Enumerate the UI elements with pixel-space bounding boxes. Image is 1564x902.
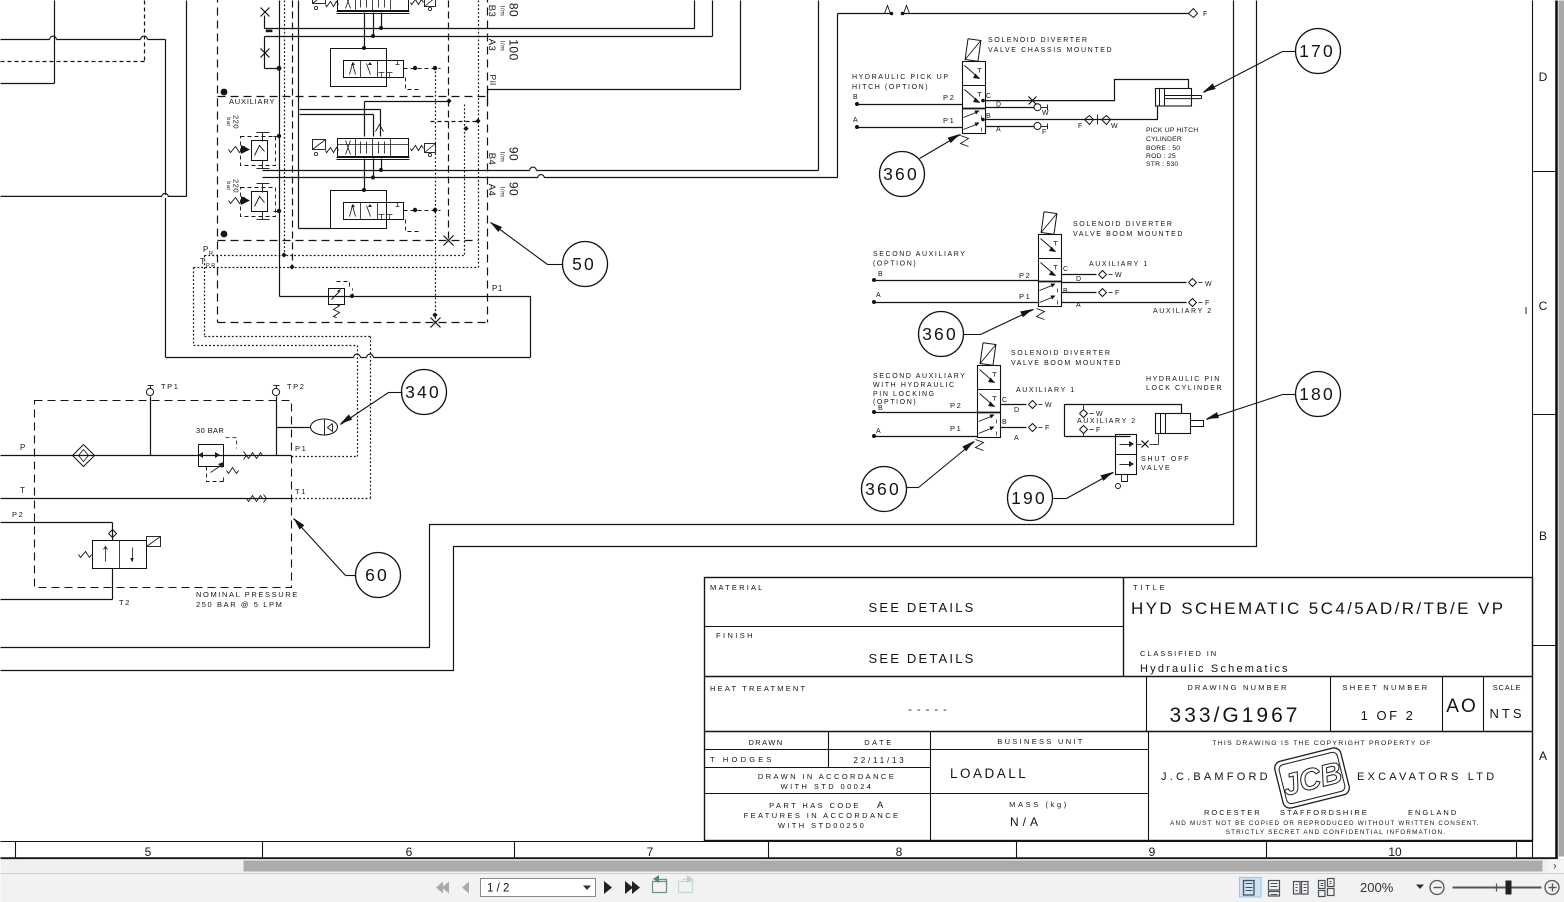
wire A with restrictor F xyxy=(986,123,1048,137)
svg-text:F: F xyxy=(1203,11,1209,18)
label ports group2 xyxy=(1063,266,1083,309)
svg-text:1 OF 2: 1 OF 2 xyxy=(1361,708,1416,723)
svg-text:SEE DETAILS: SEE DETAILS xyxy=(868,600,975,615)
label B3 80 l/m xyxy=(486,3,521,17)
toolbar zoom text 200% xyxy=(1360,880,1394,895)
balloon 50 xyxy=(563,242,608,287)
svg-text:TP1: TP1 xyxy=(161,382,180,391)
pilot dashed stub y121 xyxy=(431,118,481,131)
aux2 loop group3 xyxy=(1065,405,1182,437)
wire B4 xyxy=(263,1,819,172)
view icon continuous xyxy=(1269,881,1280,897)
svg-text:CYLINDER: CYLINDER xyxy=(1146,136,1182,143)
svg-text:DRAWN: DRAWN xyxy=(748,738,783,747)
text rocester line xyxy=(1204,808,1458,817)
svg-text:NTS: NTS xyxy=(1490,706,1525,721)
label ports group3 xyxy=(1002,397,1021,442)
toolbar zoom in button xyxy=(1545,881,1559,895)
label Pil xyxy=(488,75,498,86)
leader 170 xyxy=(1203,52,1296,93)
svg-text:190: 190 xyxy=(1011,488,1047,508)
svg-text:220: 220 xyxy=(232,179,241,193)
wire B group2 xyxy=(872,271,1039,282)
text SEE DETAILS (finish) xyxy=(868,651,975,666)
wire A group1 xyxy=(853,116,963,129)
svg-text:F: F xyxy=(1115,290,1121,297)
leader 360 group3 xyxy=(907,441,975,488)
accumulator xyxy=(277,419,338,436)
fold mark I xyxy=(1525,306,1528,317)
svg-text:AUXILIARY: AUXILIARY xyxy=(229,97,275,106)
pump unit dashed box xyxy=(35,401,292,588)
wire Pil xyxy=(488,1,741,105)
wire T line xyxy=(1,486,292,499)
toolbar prev-page button (disabled) xyxy=(462,882,469,894)
svg-text:FINISH: FINISH xyxy=(716,631,755,640)
svg-text:l/m: l/m xyxy=(498,152,505,163)
svg-text:I: I xyxy=(1525,306,1528,317)
svg-text:TP2: TP2 xyxy=(287,382,306,391)
wire A3 xyxy=(265,1,713,37)
compensator valve A3 xyxy=(331,49,441,90)
svg-text:SECOND AUXILIARY: SECOND AUXILIARY xyxy=(873,251,967,258)
svg-text:AUXILIARY 1: AUXILIARY 1 xyxy=(1089,261,1149,268)
text drawing title xyxy=(1131,599,1505,618)
svg-text:NOMINAL PRESSURE: NOMINAL PRESSURE xyxy=(196,590,299,599)
svg-text:PR: PR xyxy=(206,263,217,269)
horizontal scrollbar thumb xyxy=(244,861,1543,872)
label MATERIAL xyxy=(710,583,765,592)
svg-text:WITH HYDRAULIC: WITH HYDRAULIC xyxy=(873,382,956,389)
svg-text:B: B xyxy=(853,94,859,101)
svg-text:W: W xyxy=(1096,411,1104,418)
svg-text:›: › xyxy=(1553,861,1557,873)
leader 60 xyxy=(294,518,356,576)
svg-text:BUSINESS UNIT: BUSINESS UNIT xyxy=(997,737,1084,746)
svg-text:B: B xyxy=(878,405,884,412)
label P1 port xyxy=(295,444,307,453)
junction dot bottom xyxy=(221,231,228,238)
balloon 170 xyxy=(1296,29,1341,74)
svg-text:VALVE CHASSIS MOUNTED: VALVE CHASSIS MOUNTED xyxy=(988,47,1113,54)
svg-text:N/A: N/A xyxy=(1010,815,1042,829)
title block v-dividers xyxy=(829,578,1484,841)
svg-text:MATERIAL: MATERIAL xyxy=(710,583,765,592)
unloader solenoid valve xyxy=(79,537,161,569)
pilot dotted vertical x435 xyxy=(431,68,441,328)
spring on P line xyxy=(244,452,263,460)
svg-text:CLASSIFIED IN: CLASSIFIED IN xyxy=(1140,649,1218,658)
toolbar background xyxy=(1,873,1564,902)
wire outer boundary A xyxy=(1,1,1234,648)
svg-text:P2: P2 xyxy=(12,510,24,519)
view icon continuous facing xyxy=(1319,879,1335,897)
solenoid diverter valve 2 (boom mounted) xyxy=(1037,212,1062,320)
svg-text:250 BAR @ 5 LPM: 250 BAR @ 5 LPM xyxy=(196,600,283,609)
svg-text:STR : 530: STR : 530 xyxy=(1146,161,1178,168)
valve bank outer dashed box xyxy=(218,0,488,323)
text heat treatment dashes xyxy=(908,704,948,716)
test point TP2 xyxy=(272,382,305,456)
pilot route to pump T dotted xyxy=(194,346,358,457)
balloon 180 xyxy=(1296,372,1341,417)
svg-text:W: W xyxy=(1115,272,1123,279)
svg-text:170: 170 xyxy=(1299,41,1335,61)
text 1 OF 2 xyxy=(1361,708,1416,723)
text Hydraulic Schematics xyxy=(1140,663,1290,675)
svg-text:A: A xyxy=(876,292,882,299)
svg-text:B: B xyxy=(878,271,884,278)
pressure supply vertical x279 xyxy=(279,1,281,297)
svg-text:B: B xyxy=(1002,419,1008,426)
spring on T line xyxy=(247,495,267,503)
text T HODGES xyxy=(710,755,775,764)
sheet heavy bottom border xyxy=(1,857,1558,860)
vertical scrollbar xyxy=(1559,1,1564,857)
scrollbar right arrow button xyxy=(1549,860,1564,873)
svg-text:360: 360 xyxy=(883,164,919,184)
zone column inner vertical xyxy=(1532,1,1534,859)
label A3 100 l/m xyxy=(486,39,521,61)
text SEE DETAILS (material) xyxy=(868,600,975,615)
svg-text:360: 360 xyxy=(922,324,958,344)
svg-text:FEATURES IN ACCORDANCE: FEATURES IN ACCORDANCE xyxy=(744,811,901,820)
label pick up hitch cylinder xyxy=(1146,127,1198,168)
svg-text:F: F xyxy=(1042,129,1048,136)
svg-text:F: F xyxy=(1205,300,1211,307)
toolbar next-page button xyxy=(604,881,612,894)
wire y196 horizontal xyxy=(1,194,187,198)
toolbar prev-view button xyxy=(653,875,667,893)
svg-text:W: W xyxy=(1205,281,1213,288)
toolbar zoom dropdown caret xyxy=(1416,885,1424,890)
svg-text:LOADALL: LOADALL xyxy=(950,766,1028,781)
svg-text:HITCH (OPTION): HITCH (OPTION) xyxy=(852,84,929,91)
svg-text:LOCK CYLINDER: LOCK CYLINDER xyxy=(1146,385,1223,392)
svg-text:A: A xyxy=(996,127,1002,134)
svg-text:P2: P2 xyxy=(950,401,962,410)
balloon 360 group2 xyxy=(919,312,964,357)
svg-text:A: A xyxy=(1539,749,1547,763)
shut off valve xyxy=(1116,434,1159,489)
wire T2 xyxy=(1,569,131,608)
svg-text:SOLENOID DIVERTER: SOLENOID DIVERTER xyxy=(1073,221,1174,228)
svg-text:SHEET NUMBER: SHEET NUMBER xyxy=(1342,683,1429,692)
svg-text:HYDRAULIC PIN: HYDRAULIC PIN xyxy=(1146,376,1221,383)
toolbar next-view button (disabled) xyxy=(679,875,694,893)
svg-text:Hydraulic Schematics: Hydraulic Schematics xyxy=(1140,663,1290,675)
balloon 360 group1 xyxy=(880,152,925,197)
solenoid diverter valve 3 (boom mounted, pin locking) xyxy=(976,343,1001,451)
JCB logo xyxy=(1273,746,1351,809)
svg-text:AUXILIARY 2: AUXILIARY 2 xyxy=(1077,418,1137,425)
pilot line PR dotted xyxy=(205,252,465,336)
svg-text:ENGLAND: ENGLAND xyxy=(1408,808,1458,817)
svg-text:W: W xyxy=(1042,110,1050,117)
label TPR xyxy=(200,257,217,269)
svg-text:B3: B3 xyxy=(486,5,497,18)
svg-text:- - - - -: - - - - - xyxy=(908,704,948,716)
port cross mark lower xyxy=(261,37,282,71)
wire D with restrictor W xyxy=(986,104,1051,117)
svg-text:STRICTLY SECRET AND CONFIDENTI: STRICTLY SECRET AND CONFIDENTIAL INFORMA… xyxy=(1226,829,1447,836)
text EXCAVATORS LTD xyxy=(1357,771,1497,783)
svg-text:9: 9 xyxy=(1149,845,1156,859)
balloon 190 xyxy=(1008,476,1053,521)
text NTS xyxy=(1490,706,1525,721)
pressure reducing valve xyxy=(198,438,239,482)
svg-text:DRAWN IN ACCORDANCE: DRAWN IN ACCORDANCE xyxy=(758,772,896,781)
label solenoid diverter 3 xyxy=(1011,350,1122,367)
label MASS (kg) xyxy=(1009,800,1069,809)
leader 180 xyxy=(1206,395,1296,420)
svg-text:TITLE: TITLE xyxy=(1133,583,1167,592)
svg-text:SCALE: SCALE xyxy=(1493,683,1522,692)
svg-text:l/m: l/m xyxy=(498,6,505,17)
label P1 (bank) xyxy=(492,284,503,293)
label BUSINESS UNIT xyxy=(997,737,1084,746)
svg-text:AUXILIARY 1: AUXILIARY 1 xyxy=(1016,387,1076,394)
svg-text:5: 5 xyxy=(145,845,152,859)
svg-text:Pil: Pil xyxy=(488,75,498,86)
port cross mark upper xyxy=(261,8,270,29)
label 30 BAR xyxy=(196,426,224,435)
svg-text:T HODGES: T HODGES xyxy=(710,755,775,764)
wire x186 vertical xyxy=(186,1,188,197)
svg-text:A: A xyxy=(1014,435,1020,442)
wire P line xyxy=(1,443,292,456)
wire A out group2 xyxy=(1062,299,1211,308)
svg-text:B: B xyxy=(1063,288,1069,295)
title block h-dividers xyxy=(705,627,1533,794)
toolbar zoom out button xyxy=(1430,881,1444,895)
wire B out group1 xyxy=(981,107,1157,131)
label 220 bar #2 xyxy=(225,179,240,193)
svg-text:T2: T2 xyxy=(119,598,131,607)
svg-text:P2: P2 xyxy=(943,93,955,102)
toolbar first-page button (disabled) xyxy=(436,882,449,894)
svg-text:100: 100 xyxy=(507,39,521,61)
svg-text:W: W xyxy=(1045,402,1053,409)
svg-text:8: 8 xyxy=(896,845,903,859)
svg-text:l/m: l/m xyxy=(498,187,505,198)
svg-text:D: D xyxy=(1539,70,1548,84)
svg-text:WITH STD00250: WITH STD00250 xyxy=(778,821,866,830)
svg-text:AO: AO xyxy=(1446,696,1477,717)
label AUXILIARY xyxy=(229,97,275,106)
toolbar page input box xyxy=(481,879,596,897)
svg-text:SECOND AUXILIARY: SECOND AUXILIARY xyxy=(873,373,967,380)
label DRAWN xyxy=(748,738,783,747)
svg-text:AND MUST NOT BE COPIED OR REPR: AND MUST NOT BE COPIED OR REPRODUCED WIT… xyxy=(1170,820,1480,827)
leader 190 xyxy=(1054,472,1114,499)
label PR xyxy=(203,245,215,257)
zone row dividers xyxy=(1533,172,1557,646)
svg-text:10: 10 xyxy=(1388,845,1402,859)
auxiliary section dashed divider bottom xyxy=(218,236,479,246)
text consent line xyxy=(1170,820,1480,827)
balloon 60 xyxy=(356,553,401,598)
svg-text:HYDRAULIC PICK UP: HYDRAULIC PICK UP xyxy=(852,74,950,81)
svg-text:T1: T1 xyxy=(295,487,307,496)
leader 50 xyxy=(490,222,563,265)
svg-text:F: F xyxy=(1078,123,1084,130)
svg-text:bar: bar xyxy=(225,181,231,190)
toolbar zoom slider xyxy=(1453,881,1542,895)
wire A group2 xyxy=(872,292,1039,304)
svg-text:P1: P1 xyxy=(492,284,503,293)
toolbar last-page button xyxy=(625,881,640,894)
wire C to cylinder xyxy=(981,80,1188,105)
ruler top line xyxy=(1,841,1533,843)
svg-text:F: F xyxy=(1045,425,1051,432)
svg-text:DRAWING NUMBER: DRAWING NUMBER xyxy=(1187,683,1288,692)
wire P2 xyxy=(1,510,117,541)
svg-text:C: C xyxy=(1002,397,1009,404)
svg-text:A3: A3 xyxy=(486,39,497,52)
wire D out group2 xyxy=(1062,279,1214,289)
svg-text:SHUT OFF: SHUT OFF xyxy=(1141,456,1190,463)
label HEAT TREATMENT xyxy=(710,684,807,693)
text J.C.BAMFORD xyxy=(1161,771,1271,783)
leader 360 group1 xyxy=(920,134,961,159)
svg-text:SEE DETAILS: SEE DETAILS xyxy=(868,651,975,666)
pin lock cylinder xyxy=(1156,414,1204,434)
svg-text:W: W xyxy=(1111,123,1119,130)
label A4 90 l/m xyxy=(486,182,521,197)
label AUXILIARY 2 group3 xyxy=(1077,418,1137,425)
wire B out group2 xyxy=(1062,289,1121,298)
svg-text:P: P xyxy=(20,443,27,452)
pilot line TPR dotted xyxy=(194,264,479,345)
label AUXILIARY 2 group2 xyxy=(1153,308,1213,315)
svg-text:1 / 2: 1 / 2 xyxy=(487,883,509,895)
text drawn in accordance xyxy=(758,772,896,791)
svg-text:P1: P1 xyxy=(1019,292,1031,301)
svg-text:C: C xyxy=(1539,299,1548,313)
svg-text:T: T xyxy=(20,486,27,495)
label T1 port xyxy=(295,487,307,496)
wire y357 horizontal xyxy=(166,354,531,359)
B3 valve drop lines xyxy=(362,13,383,51)
balloon 340 xyxy=(402,370,447,415)
label DRAWING NUMBER xyxy=(1187,683,1288,692)
leader 340 xyxy=(340,393,403,425)
filter xyxy=(73,445,95,467)
ruler zone ticks xyxy=(16,842,1517,859)
svg-text:MASS (kg): MASS (kg) xyxy=(1009,800,1069,809)
svg-text:B: B xyxy=(1539,529,1547,543)
leader 360 group2 xyxy=(964,309,1034,335)
svg-text:90: 90 xyxy=(507,147,521,161)
svg-text:SOLENOID DIVERTER: SOLENOID DIVERTER xyxy=(988,37,1089,44)
pilot dotted vertical x464 xyxy=(464,105,466,256)
solenoid diverter valve 1 (chassis mounted) xyxy=(961,39,986,147)
svg-text:PICK UP HITCH: PICK UP HITCH xyxy=(1146,127,1198,134)
svg-text:BORE : 50: BORE : 50 xyxy=(1146,145,1180,152)
text N/A xyxy=(1010,815,1042,829)
svg-text:A: A xyxy=(877,800,884,811)
svg-text:l/m: l/m xyxy=(498,41,505,52)
text copyright line xyxy=(1212,740,1431,747)
pilot route to pump P dotted xyxy=(205,337,371,499)
svg-text:220: 220 xyxy=(232,115,241,129)
wire outer boundary B xyxy=(1,1,1257,671)
wire B3 xyxy=(265,1,695,29)
B4 valve riser to pilot xyxy=(300,1,452,241)
view icon single page (selected) xyxy=(1240,878,1262,898)
svg-text:50: 50 xyxy=(572,254,596,274)
svg-text:SOLENOID DIVERTER: SOLENOID DIVERTER xyxy=(1011,350,1112,357)
svg-text:7: 7 xyxy=(647,845,654,859)
svg-text:C: C xyxy=(986,93,993,100)
label second auxiliary pin locking xyxy=(873,373,967,406)
svg-text:DATE: DATE xyxy=(864,738,893,747)
label B4 90 l/m xyxy=(486,147,521,165)
label TITLE xyxy=(1133,583,1167,592)
proportional valve section B3 (top, cut off) xyxy=(313,0,436,14)
svg-text:P1: P1 xyxy=(950,424,962,433)
svg-text:VALVE: VALVE xyxy=(1141,465,1172,472)
relief valve 220bar #2 xyxy=(229,184,282,220)
svg-text:P1: P1 xyxy=(943,116,955,125)
svg-text:PIN LOCKING: PIN LOCKING xyxy=(873,391,936,398)
horizontal scrollbar track xyxy=(1,860,1564,873)
label 220 bar #1 xyxy=(225,115,240,129)
label CLASSIFIED IN xyxy=(1140,649,1218,658)
svg-text:WITH STD 00024: WITH STD 00024 xyxy=(781,782,874,791)
view icon facing xyxy=(1294,882,1309,895)
wire C out group2 xyxy=(1062,271,1124,280)
svg-text:6: 6 xyxy=(406,845,413,859)
svg-text:P1: P1 xyxy=(295,444,307,453)
svg-text:60: 60 xyxy=(365,565,389,585)
sheet heavy right border xyxy=(1555,1,1558,860)
svg-text:(OPTION): (OPTION) xyxy=(873,261,917,268)
svg-text:ROD : 25: ROD : 25 xyxy=(1146,153,1176,160)
label SHEET NUMBER xyxy=(1342,683,1429,692)
text 22/11/13 xyxy=(854,756,907,765)
compensator valve A4 xyxy=(331,191,441,232)
label FINISH xyxy=(716,631,755,640)
title block outer box xyxy=(705,578,1533,841)
text A0 xyxy=(1446,696,1477,717)
wire y39 horizontal xyxy=(1,36,166,41)
label second auxiliary xyxy=(873,251,967,268)
svg-text:30 BAR: 30 BAR xyxy=(196,426,224,435)
svg-text:PART HAS CODE: PART HAS CODE xyxy=(769,801,861,810)
svg-text:22/11/13: 22/11/13 xyxy=(854,756,907,765)
svg-text:A: A xyxy=(876,428,882,435)
svg-text:180: 180 xyxy=(1299,384,1335,404)
svg-text:ROCESTER: ROCESTER xyxy=(1204,808,1262,817)
svg-text:EXCAVATORS LTD: EXCAVATORS LTD xyxy=(1357,771,1497,783)
supply vertical x298 xyxy=(299,1,331,229)
svg-text:360: 360 xyxy=(865,479,901,499)
label NOMINAL PRESSURE xyxy=(196,590,299,609)
label SCALE xyxy=(1493,683,1522,692)
test point TP1 xyxy=(146,382,179,456)
label solenoid diverter 1 xyxy=(988,37,1113,54)
label DATE xyxy=(864,738,893,747)
svg-text:340: 340 xyxy=(405,382,441,402)
wire C out group3 xyxy=(1001,401,1054,410)
proportional valve section B4 xyxy=(313,139,436,160)
label AUXILIARY 1 group2 xyxy=(1089,261,1149,268)
svg-text:D: D xyxy=(1014,407,1021,414)
auxiliary section dashed divider top xyxy=(218,96,488,98)
pilot dotted vertical x292 xyxy=(292,1,294,268)
